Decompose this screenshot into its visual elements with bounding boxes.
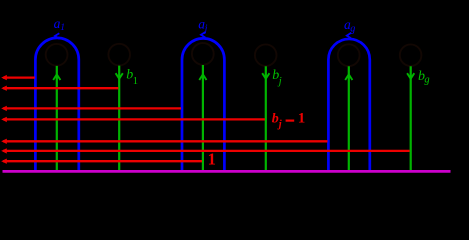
arrowhead on a1 xyxy=(55,33,59,39)
hole circle above bj xyxy=(255,44,277,66)
arrowhead on ag xyxy=(347,33,351,39)
red chord line 2 xyxy=(3,87,118,89)
red chord line 3 xyxy=(3,107,181,109)
curve bj strand through handle 2 (up arrow) xyxy=(202,65,204,170)
curve ag arch xyxy=(328,39,369,171)
svg-text:1: 1 xyxy=(208,150,216,169)
svg-text:g: g xyxy=(350,24,355,35)
red chord line 5 xyxy=(3,140,328,142)
arrowhead on aj xyxy=(201,32,205,38)
handle 2 hole circle xyxy=(192,43,214,65)
boundary base line xyxy=(3,170,451,173)
svg-text:1: 1 xyxy=(133,76,138,87)
hole circle above b1 xyxy=(108,44,130,66)
curve b1 return strand (down arrow) xyxy=(118,66,120,171)
hole circle above bg xyxy=(400,44,422,66)
curve bj return strand (down arrow) xyxy=(265,66,267,170)
curve bg strand through handle 3 (up arrow) xyxy=(348,66,350,170)
handle 3 hole circle xyxy=(338,44,360,66)
red chord line 7 xyxy=(3,160,202,162)
curve aj arch xyxy=(182,38,224,171)
curve a1 arch xyxy=(35,38,78,171)
handle 1 hole circle xyxy=(46,44,68,66)
curve b1 strand through handle 1 (up arrow) xyxy=(56,66,58,170)
svg-text:1: 1 xyxy=(298,111,306,127)
svg-text:1: 1 xyxy=(60,23,65,33)
red chord line 1 xyxy=(3,76,35,78)
svg-text:g: g xyxy=(424,75,429,86)
curve bg return strand (down arrow) xyxy=(410,66,412,170)
red chord line 6 xyxy=(3,150,410,152)
svg-text:b: b xyxy=(272,111,279,126)
red chord line 4 xyxy=(3,118,265,120)
